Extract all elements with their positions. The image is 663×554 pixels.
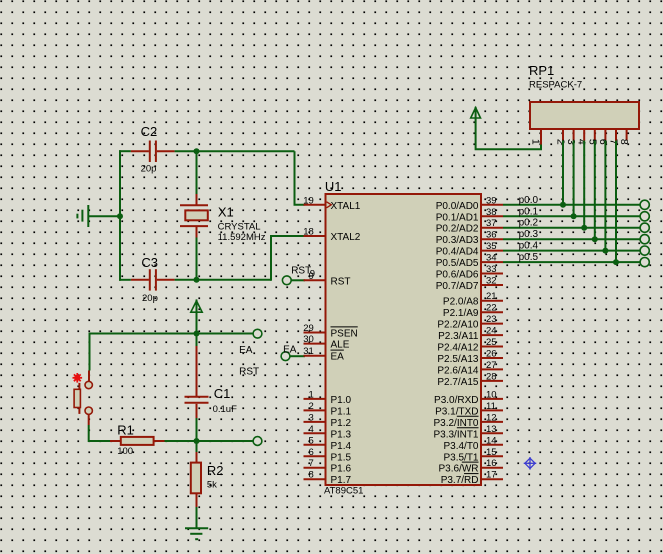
node junction p0.0 / RP1 (560, 202, 566, 208)
wire EA pin (290, 355, 305, 357)
svg-text:31: 31 (303, 346, 314, 357)
node junction p0.4 / RP1 (602, 248, 608, 254)
svg-text:3: 3 (309, 412, 314, 423)
pin 3 RP1 (565, 129, 577, 145)
pin 31 EA (left) (303, 346, 344, 363)
wire RP1 pin 2 down (562, 141, 564, 205)
svg-text:22: 22 (486, 303, 497, 314)
svg-text:5: 5 (586, 139, 598, 145)
svg-text:33: 33 (486, 264, 497, 275)
svg-text:P0.6/AD6: P0.6/AD6 (436, 270, 479, 281)
svg-text:0.1uF: 0.1uF (213, 404, 237, 415)
pin 15 P3.5/T1 (right) (443, 447, 503, 464)
power terminal (RP1) (471, 107, 481, 119)
svg-text:P2.3/A11: P2.3/A11 (438, 331, 479, 342)
ground (bottom) (185, 528, 208, 539)
svg-text:3: 3 (565, 139, 577, 145)
pin 17 P3.7/RD (right) (441, 470, 503, 487)
terminal open circle (RST wire) (253, 437, 262, 446)
wire left vertical C2/C3 bus (119, 150, 121, 281)
svg-text:21: 21 (486, 291, 497, 302)
wire EA horizontal (90, 334, 258, 371)
pin 32 P0.7/AD7 (right) (436, 276, 503, 293)
svg-text:26: 26 (486, 349, 497, 360)
svg-text:P0.5/AD5: P0.5/AD5 (436, 258, 479, 269)
pin 10 P3.0/RXD (right) (434, 389, 503, 406)
capacitor C3 (131, 269, 175, 290)
svg-text:8: 8 (618, 139, 630, 145)
svg-text:24: 24 (486, 326, 497, 337)
pin 13 P3.3/INT1 (right) (433, 424, 503, 441)
pin 1 P1.0 (left) (304, 389, 352, 406)
svg-text:P3.4/T0: P3.4/T0 (443, 441, 478, 452)
svg-text:P1.3: P1.3 (331, 429, 352, 440)
wire X1 bottom (196, 238, 198, 280)
resistor R2 (191, 452, 201, 507)
wire p0.5 (503, 261, 640, 263)
pin 29 PSEN (left) (303, 323, 358, 340)
svg-text:P0.1/AD1: P0.1/AD1 (436, 212, 479, 223)
svg-text:p0.3: p0.3 (519, 229, 539, 240)
pin 21 P2.0/A8 (right) (443, 291, 503, 308)
svg-text:1: 1 (530, 139, 542, 145)
svg-text:35: 35 (486, 241, 497, 252)
pin 25 P2.4/A12 (right) (437, 337, 503, 354)
node junction p0.2 / RP1 (581, 225, 587, 231)
svg-text:18: 18 (303, 227, 314, 238)
pushbutton actuator (red star) (73, 373, 83, 383)
svg-text:1: 1 (309, 389, 314, 400)
pin 19 XTAL1 (left) (303, 195, 361, 212)
pin 18 XTAL2 (left) (303, 227, 361, 244)
pin 22 P2.1/A9 (right) (443, 303, 503, 320)
svg-text:p0.5: p0.5 (519, 252, 539, 263)
svg-text:P2.4/A12: P2.4/A12 (437, 343, 479, 354)
pin 5 RP1 (586, 129, 598, 145)
svg-text:16: 16 (486, 458, 497, 469)
svg-text:P0.0/AD0: P0.0/AD0 (436, 201, 479, 212)
wire X1 top (196, 151, 198, 194)
terminal p0.1 (640, 212, 649, 221)
pin 4 RP1 (576, 129, 588, 145)
svg-text:4: 4 (576, 139, 588, 145)
capacitor C1 (185, 346, 209, 418)
wire RP1 pin 7 down (615, 141, 617, 263)
svg-text:15: 15 (486, 447, 497, 458)
pin 27 P2.6/A14 (right) (437, 360, 503, 377)
wire ground to node (88, 215, 120, 217)
svg-text:39: 39 (486, 195, 497, 206)
svg-text:X1: X1 (218, 205, 234, 220)
svg-text:U1: U1 (325, 179, 342, 194)
pin 23 P2.2/A10 (right) (437, 314, 503, 331)
wire RP1 pin 5 down (594, 141, 596, 240)
svg-text:13: 13 (486, 424, 497, 435)
wire R1 to junction (165, 440, 254, 442)
wire p0.3 (503, 238, 640, 240)
svg-text:10: 10 (486, 389, 497, 400)
svg-text:P1.0: P1.0 (331, 395, 352, 406)
svg-text:23: 23 (486, 314, 497, 325)
svg-text:C1: C1 (214, 386, 231, 401)
ground terminal (left, rotated) (77, 205, 88, 227)
svg-text:P0.4/AD4: P0.4/AD4 (436, 247, 479, 258)
pin 7 P1.6 (left) (304, 458, 352, 475)
svg-text:PSEN: PSEN (331, 329, 358, 340)
wire RP1 pin 3 down (573, 141, 575, 217)
wire RP1 pin 6 down (604, 141, 606, 251)
svg-text:P3.6/WR: P3.6/WR (438, 464, 478, 475)
svg-text:19: 19 (303, 195, 314, 206)
svg-text:36: 36 (486, 230, 497, 241)
pin 9 RST (left) (304, 271, 351, 288)
svg-text:C3: C3 (141, 255, 158, 270)
pin 6 P1.5 (left) (304, 447, 352, 464)
svg-text:EA: EA (331, 352, 345, 363)
pin 2 RP1 (555, 129, 567, 145)
svg-text:11: 11 (486, 401, 496, 412)
pin 24 P2.3/A11 (right) (438, 326, 503, 343)
svg-text:P0.3/AD3: P0.3/AD3 (436, 235, 479, 246)
pin 37 P0.2/AD2 (right) (436, 218, 503, 235)
svg-text:14: 14 (486, 435, 497, 446)
op chip U1 AT89C51 body (326, 194, 482, 485)
capacitor C2 (131, 141, 175, 163)
node junction p0.5 / RP1 (613, 259, 619, 265)
wire C1 bottom (196, 418, 198, 441)
svg-text:P1.4: P1.4 (331, 441, 352, 452)
pin 8 RP1 (618, 129, 630, 145)
svg-text:37: 37 (486, 218, 497, 229)
pin 5 P1.4 (left) (304, 435, 352, 452)
svg-text:P2.2/A10: P2.2/A10 (437, 320, 479, 331)
svg-text:P0.7/AD7: P0.7/AD7 (436, 281, 479, 292)
svg-text:38: 38 (486, 207, 497, 218)
terminal RST (pin 9) (282, 276, 291, 285)
wire C3 right (175, 279, 271, 281)
svg-text:P1.5: P1.5 (331, 452, 352, 463)
resistor R1 (110, 437, 165, 445)
wire p0.1 (503, 215, 640, 217)
pin 38 P0.1/AD1 (right) (436, 207, 503, 224)
svg-text:p0.4: p0.4 (519, 241, 539, 252)
svg-text:12: 12 (486, 412, 497, 423)
wire C2 right to XTAL1 corner (175, 150, 295, 152)
pin 1 RP1 (530, 129, 542, 145)
svg-text:28: 28 (486, 371, 497, 382)
pin 35 P0.4/AD4 (right) (436, 241, 503, 258)
terminal p0.5 (640, 258, 649, 267)
svg-text:R1: R1 (117, 422, 134, 437)
svg-text:RST: RST (331, 276, 351, 287)
wire to XTAL2 (271, 236, 305, 281)
pin 28 P2.7/A15 (right) (437, 371, 503, 388)
svg-text:7: 7 (608, 139, 620, 145)
pin 34 P0.5/AD5 (right) (436, 253, 503, 270)
svg-text:R2: R2 (207, 463, 224, 478)
svg-text:27: 27 (486, 360, 497, 371)
wire C2 left (119, 150, 131, 152)
pin 2 P1.1 (left) (304, 401, 352, 418)
pin 26 P2.5/A13 (right) (437, 349, 503, 366)
svg-text:32: 32 (486, 276, 497, 287)
terminal EA (pin 31) (281, 352, 290, 361)
svg-text:P3.7/RD: P3.7/RD (441, 475, 479, 486)
wire p0.2 (503, 227, 640, 229)
node junction C3/X1 (194, 277, 200, 283)
svg-text:4: 4 (309, 424, 314, 435)
svg-text:29: 29 (303, 323, 314, 334)
wire p0.4 (503, 250, 640, 252)
pin 16 P3.6/WR (right) (438, 458, 503, 475)
pin 7 RP1 (608, 129, 620, 145)
terminal p0.2 (640, 223, 649, 232)
svg-text:ALE: ALE (331, 340, 350, 351)
svg-text:P3.1/TXD: P3.1/TXD (435, 406, 478, 417)
pin 11 P3.1/TXD (right) (435, 401, 503, 418)
svg-text:P1.1: P1.1 (331, 406, 352, 417)
clock mark XTAL1 (327, 202, 332, 208)
svg-text:100: 100 (117, 446, 133, 457)
pin 39 P0.0/AD0 (right) (436, 195, 503, 212)
svg-text:EA: EA (283, 345, 297, 356)
pushbutton SW (74, 371, 92, 426)
svg-text:11.592MHz: 11.592MHz (218, 232, 266, 243)
crystal X1 (180, 194, 208, 238)
svg-text:8: 8 (309, 470, 314, 481)
svg-text:P2.5/A13: P2.5/A13 (437, 354, 479, 365)
wire RP1 pin 4 down (583, 141, 585, 228)
pin 6 RP1 (597, 129, 609, 145)
svg-text:C2: C2 (141, 124, 158, 139)
svg-text:P2.1/A9: P2.1/A9 (443, 308, 479, 319)
pin 4 P1.3 (left) (304, 424, 352, 441)
wire button to R1 (89, 425, 110, 441)
pin 3 P1.2 (left) (304, 412, 352, 429)
svg-text:5k: 5k (207, 480, 217, 491)
svg-text:17: 17 (486, 470, 497, 481)
resistor pack RP1 body (530, 102, 639, 129)
node junction p0.1 / RP1 (571, 213, 577, 219)
terminal open circle (EA wire) (253, 329, 262, 338)
svg-text:P1.2: P1.2 (331, 418, 352, 429)
svg-text:p0.0: p0.0 (519, 195, 539, 206)
svg-text:P2.6/A14: P2.6/A14 (437, 365, 479, 376)
terminal p0.3 (640, 235, 649, 244)
svg-text:20p: 20p (141, 164, 157, 175)
svg-text:9: 9 (309, 271, 314, 282)
pin 36 P0.3/AD3 (right) (436, 230, 503, 247)
svg-text:34: 34 (486, 253, 497, 264)
pin 8 P1.7 (left) (304, 470, 352, 487)
svg-text:5: 5 (309, 435, 314, 446)
svg-text:P1.6: P1.6 (331, 464, 352, 475)
svg-text:2: 2 (555, 139, 567, 145)
wire R2 to ground (196, 507, 198, 528)
wire R2 top (196, 441, 198, 452)
node junction power/C1 (194, 331, 200, 337)
svg-text:P1.7: P1.7 (331, 475, 352, 486)
svg-text:p0.2: p0.2 (519, 218, 539, 229)
wire RST pin (291, 279, 305, 281)
wire C1 top (196, 334, 198, 347)
svg-text:6: 6 (309, 447, 314, 458)
svg-text:7: 7 (309, 458, 314, 469)
wire XTAL1 down (295, 151, 305, 205)
svg-text:P3.3/INT1: P3.3/INT1 (433, 429, 478, 440)
power terminal (above C1) (191, 300, 202, 334)
marker (blue origin cross) (524, 457, 537, 470)
svg-text:P2.0/A8: P2.0/A8 (443, 297, 479, 308)
node junction p0.3 / RP1 (592, 236, 598, 242)
pin 33 P0.6/AD6 (right) (436, 264, 503, 281)
svg-text:CRYSTAL: CRYSTAL (218, 221, 261, 232)
wire C3 left (119, 279, 131, 281)
wire p0.0 (503, 204, 640, 206)
svg-text:RESPACK-7: RESPACK-7 (529, 80, 582, 91)
svg-text:p0.1: p0.1 (519, 206, 539, 217)
svg-text:RST: RST (239, 367, 259, 378)
svg-text:XTAL1: XTAL1 (331, 201, 361, 212)
svg-text:P3.0/RXD: P3.0/RXD (434, 395, 478, 406)
pin 30 ALE (left) (303, 334, 350, 351)
svg-text:25: 25 (486, 337, 497, 348)
svg-text:30: 30 (303, 334, 314, 345)
terminal p0.4 (640, 246, 649, 255)
svg-text:2: 2 (309, 401, 314, 412)
svg-text:EA: EA (239, 345, 253, 356)
pin 14 P3.4/T0 (right) (443, 435, 503, 452)
svg-text:XTAL2: XTAL2 (331, 232, 361, 243)
pin 12 P3.2/INT0 (right) (433, 412, 503, 429)
svg-text:20p: 20p (142, 293, 158, 304)
svg-text:P0.2/AD2: P0.2/AD2 (436, 224, 479, 235)
node junction at left bus / ground (117, 213, 123, 219)
svg-text:AT89C51: AT89C51 (324, 486, 363, 497)
node junction R1/C1/R2 (194, 438, 200, 444)
svg-text:6: 6 (597, 139, 609, 145)
svg-text:RP1: RP1 (529, 63, 554, 78)
wire RP1 pin1 to power (476, 118, 541, 149)
node junction C2/X1 (194, 148, 200, 154)
terminal p0.0 (640, 200, 649, 209)
svg-text:P2.7/A15: P2.7/A15 (437, 377, 479, 388)
